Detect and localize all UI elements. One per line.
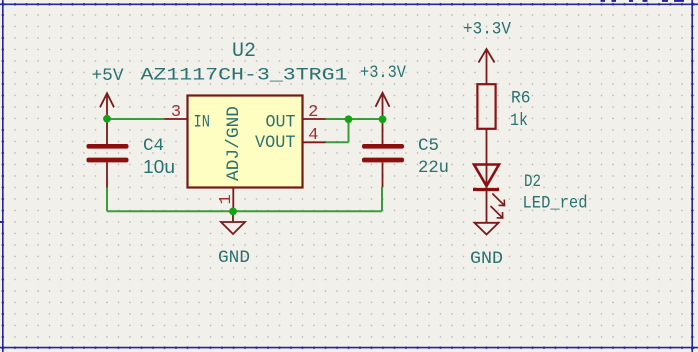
- power symbol +3.3V at LED branch: [479, 49, 495, 84]
- svg-text:2: 2: [308, 103, 318, 122]
- svg-text:U2: U2: [232, 40, 256, 63]
- svg-text:OUT: OUT: [266, 113, 296, 133]
- power symbol +3.3V at regulator output: [376, 93, 390, 120]
- wire R6 to D2: [486, 129, 488, 165]
- svg-text:D2: D2: [524, 172, 541, 192]
- svg-text:10u: 10u: [143, 157, 175, 177]
- svg-text:1: 1: [217, 194, 236, 204]
- frame grid ticks right: [691, 0, 693, 352]
- pin 1 ADJ/GND stub: [232, 188, 234, 212]
- svg-text:1k: 1k: [510, 111, 528, 131]
- node junction +5V / C4 / IN: [103, 115, 111, 123]
- regulator U2 body: [188, 96, 303, 188]
- pin 4 VOUT stub: [303, 141, 326, 143]
- frame grid ticks left: [2, 0, 4, 352]
- wire ground rail: [107, 210, 382, 212]
- svg-text:+3.3V: +3.3V: [463, 20, 511, 40]
- node junction +3.3V / C5: [379, 115, 387, 123]
- sheet frame right border: [691, 0, 693, 352]
- node junction OUT / VOUT tie: [345, 115, 353, 123]
- svg-text:+5V: +5V: [92, 66, 124, 86]
- sheet frame top border: [0, 3, 698, 5]
- wire +5V node to IN pin: [107, 118, 164, 120]
- power symbol +5V: [100, 93, 114, 119]
- diode D2 LED: [473, 165, 499, 223]
- pin 3 IN stub: [164, 118, 187, 120]
- wire VOUT riser to OUT net: [348, 118, 350, 142]
- wire C4 bottom to ground rail: [106, 188, 108, 211]
- LED emission arrow 1: [492, 194, 504, 206]
- ground symbol GND under LED: [475, 223, 499, 235]
- frame grid ticks top: [0, 3, 698, 5]
- frame zone divider tick left: [0, 221, 4, 223]
- svg-text:GND: GND: [218, 248, 250, 268]
- capacitor C5: [362, 119, 404, 187]
- sheet frame bottom border: [0, 347, 698, 349]
- wire VOUT pin horizontal: [326, 141, 349, 143]
- svg-text:LED_red: LED_red: [523, 194, 588, 214]
- svg-text:GND: GND: [470, 249, 503, 269]
- ground symbol GND under regulator: [221, 211, 245, 234]
- capacitor C4: [87, 119, 129, 188]
- sheet frame left border: [2, 0, 4, 352]
- resistor R6: [477, 84, 495, 129]
- svg-text:AZ1117CH-3_3TRG1: AZ1117CH-3_3TRG1: [141, 66, 348, 86]
- svg-text:3: 3: [171, 103, 181, 122]
- sheet title text bottoms (cropped at top edge): [601, 0, 685, 2]
- LED emission arrow 2: [491, 206, 503, 218]
- svg-text:IN: IN: [194, 113, 211, 133]
- node junction ground / pin 1: [229, 208, 237, 216]
- wire C5 bottom to ground rail: [381, 187, 383, 211]
- svg-text:4: 4: [308, 126, 318, 145]
- svg-text:VOUT: VOUT: [255, 133, 296, 153]
- svg-text:ADJ/GND: ADJ/GND: [224, 106, 244, 181]
- wire OUT pin to +3.3V node: [326, 118, 383, 120]
- svg-text:C4: C4: [143, 136, 164, 156]
- svg-text:+3.3V: +3.3V: [360, 63, 406, 83]
- svg-text:22u: 22u: [418, 158, 449, 178]
- frame grid ticks bottom: [0, 346, 698, 348]
- pin 2 OUT stub: [303, 118, 326, 120]
- svg-text:C5: C5: [418, 136, 439, 156]
- svg-text:R6: R6: [511, 89, 531, 109]
